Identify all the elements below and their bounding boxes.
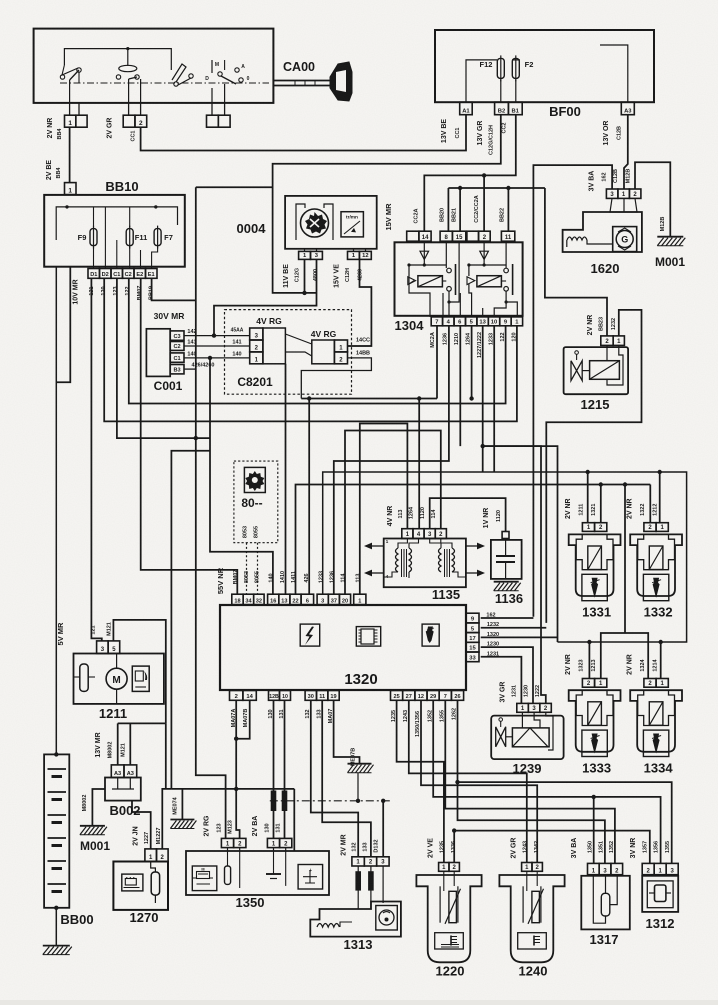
wire 1233 1304 to injector bus	[493, 326, 495, 472]
wire signal mid down	[624, 485, 626, 634]
bus MA07 ground	[171, 788, 294, 790]
junction lower bus 1333	[587, 640, 591, 644]
BF00 internal rail	[466, 60, 497, 102]
connector C001 body	[146, 329, 170, 377]
1239 connector	[517, 703, 529, 712]
1304 left relay bus	[409, 264, 446, 266]
1304 misc bottom wires	[442, 293, 444, 317]
1211 resistor	[80, 664, 88, 691]
octane gear box	[244, 467, 265, 492]
wire 14BB	[301, 358, 371, 399]
wire D132 to 1313	[382, 801, 384, 857]
injector 1334 body	[630, 690, 682, 752]
sensor 1240 thermometer icon	[518, 933, 547, 949]
junction CC2/CC2A	[482, 173, 486, 177]
1620 connector	[606, 189, 618, 198]
injector 1331 solenoid	[588, 546, 602, 570]
wire 1264 1304 down	[471, 326, 473, 399]
fuse F7	[154, 229, 161, 246]
1313 inline connector 2	[369, 872, 374, 890]
wire 162 to 1620	[533, 165, 612, 617]
inline connector 130	[271, 791, 276, 811]
wire CC2 B1 down	[424, 115, 516, 232]
junction battery bottom	[54, 906, 58, 910]
BB10 connector row	[88, 269, 100, 279]
junction 0004 C12G	[302, 291, 306, 295]
svg-text:M1227: M1227	[156, 828, 162, 845]
wire 1120 1135 to 1136	[430, 498, 506, 531]
wire pin33 1231	[481, 657, 522, 704]
fuse F9	[90, 229, 97, 246]
wire M1227 into 1270	[162, 789, 171, 849]
1135 connector	[402, 529, 413, 539]
1313 coil symbol	[317, 924, 339, 928]
idle actuator 1239 box	[491, 716, 563, 760]
BB10 internal rail	[56, 207, 177, 240]
1304 top connector 2	[467, 231, 479, 241]
switch S2	[127, 49, 129, 66]
BB00 battery cells	[48, 768, 67, 770]
1136 connector	[502, 532, 509, 539]
wire 1352 to 1317	[445, 700, 615, 863]
C8201 link lines	[285, 334, 311, 344]
wire 426/4260 from B3	[184, 368, 196, 370]
1304 left contact	[445, 241, 447, 268]
fuel pump 1211 box	[74, 654, 164, 704]
wire 1350/1356 bus	[433, 700, 660, 863]
BB10 rail junction left	[65, 205, 68, 208]
dotted wire 8053	[246, 543, 248, 595]
wire M12B to ground	[635, 162, 670, 236]
switch S3	[170, 62, 172, 70]
1135 left primary coil	[396, 548, 399, 572]
bus 450 left	[171, 451, 210, 789]
wire 121 to 1211	[91, 278, 101, 641]
1304 right relay bus	[469, 264, 506, 266]
1135 HT arrow left top	[372, 545, 384, 547]
wire pin15 1230	[481, 647, 533, 703]
junction 45AA	[212, 333, 216, 337]
wire 2V BE BB4 down to BB10	[69, 127, 71, 182]
junction 1336	[452, 828, 456, 832]
1320 injector icon box	[422, 624, 439, 646]
svg-text:2V JN: 2V JN	[133, 826, 140, 845]
junction lower bus 1334	[659, 640, 663, 644]
C8201 connector B cells	[334, 340, 347, 352]
wire 130 down	[273, 700, 275, 838]
sensor 1220 wire in	[443, 871, 445, 891]
injector supply bus	[323, 472, 687, 642]
ECU 1320 box	[220, 605, 466, 690]
C8201 connector B body	[312, 340, 335, 364]
wire 1262 to 1317	[458, 782, 605, 863]
0004 pin stubs	[304, 249, 306, 252]
sensor 1220 thermometer icon	[435, 933, 464, 949]
1320 bottom group4	[391, 691, 403, 701]
junction bus 1332	[658, 470, 662, 474]
CA00 internal dash-dot line	[60, 82, 269, 84]
wire BB22 from 1304 pin 11	[507, 188, 509, 231]
1304 right contact	[505, 241, 507, 268]
CA00 connector 2 (2V GR)	[123, 115, 135, 127]
0004 connector 1 3	[299, 251, 311, 259]
resistor unit 1270 box	[113, 862, 168, 910]
1270 resistor	[151, 872, 159, 895]
C001 cells	[170, 331, 184, 340]
inline connector 131	[282, 791, 287, 811]
injector 1334 nozzle icon box	[643, 730, 668, 756]
ground ME07B	[348, 763, 372, 765]
fuse box BB10	[44, 195, 185, 267]
wire lower drop 1334	[660, 642, 662, 679]
1312 inner box	[647, 881, 673, 908]
wire supply drop 1331	[587, 472, 589, 523]
BB10 rail junction right	[154, 205, 157, 208]
ground M001 top right	[657, 236, 683, 238]
1304 top connector 8 15	[440, 231, 452, 241]
1350 resistor icon box	[192, 866, 217, 891]
junction 140-1320	[208, 356, 212, 360]
junction 426	[307, 396, 311, 400]
BB10 pin 1	[65, 183, 77, 195]
wire pin17 1320	[481, 636, 558, 638]
injector 1331 body	[569, 534, 621, 596]
sensor 1240 wire in	[526, 871, 528, 891]
wire BB20 BB21 header	[448, 187, 545, 189]
1211 connector	[97, 641, 109, 654]
wire pin5 1232	[481, 627, 547, 629]
junction signal mid	[623, 482, 627, 486]
wire 426 to 1320 pin6	[308, 399, 310, 595]
wire 123 down to 1350	[196, 438, 226, 838]
injector 1332 solenoid housing	[638, 534, 675, 569]
injector 1332 solenoid	[649, 546, 663, 570]
injector 1334 solenoid housing	[638, 690, 675, 725]
1304 right relay diode	[483, 241, 485, 265]
1304 top connector 14	[407, 231, 419, 241]
resistor pack 1350 box	[186, 851, 329, 895]
wire MC2A from 1304 pin7	[436, 326, 438, 399]
fuse F2	[512, 58, 519, 78]
B002 connector	[111, 765, 124, 778]
fuse F11	[126, 229, 133, 246]
1350 vertical resistor	[225, 866, 231, 884]
starter 1620 body	[610, 198, 637, 212]
wire 10V MR left pair	[55, 267, 57, 755]
dashed box C8201	[225, 310, 352, 395]
wire 1264 to 1135 pin4	[418, 399, 420, 529]
1620 coil	[566, 240, 568, 247]
1350 inner wires	[239, 851, 241, 888]
1211 fuel icon	[132, 666, 149, 691]
BF00 connector A1	[460, 102, 473, 115]
ignition coil primary 1313 body	[310, 902, 401, 937]
sensor 1312 box	[642, 876, 678, 912]
0004 engine symbol	[301, 209, 329, 237]
relay unit 1304 box	[395, 242, 523, 315]
sensor 1220 thermistor	[449, 891, 457, 922]
wire 1236 horizontal link	[334, 460, 449, 462]
wire 1222 branch	[483, 446, 546, 703]
sensor 1220 connector	[439, 863, 449, 872]
junction signal 1331	[599, 482, 603, 486]
wire 13V GR C12G to 0004 loop	[273, 115, 501, 293]
dotted wire 8055	[257, 543, 259, 595]
sensor 1240 connector	[522, 863, 532, 872]
bus 438 wire 123	[117, 278, 210, 438]
bus 398 C8201 to 1135	[301, 398, 437, 400]
ground ME074	[170, 819, 194, 821]
injector 1333 body	[569, 690, 621, 752]
1320 right connector cells	[466, 613, 479, 623]
wire 1411 signal bus	[296, 485, 651, 595]
1270 connector	[145, 849, 157, 862]
octane gear icon	[245, 471, 264, 491]
1320 top connector row	[232, 594, 243, 604]
wire MA07A merge	[236, 700, 239, 838]
bus 421 wire 120	[104, 278, 517, 421]
BB10 wires fuses to cells	[93, 246, 95, 269]
1313 icon box	[376, 906, 398, 931]
0004 connector 1 12	[348, 251, 360, 259]
signal T lower	[601, 633, 648, 679]
1304 top connector 11	[501, 231, 514, 241]
wire MA07 to ME07B	[334, 700, 360, 763]
1211 motor	[106, 668, 127, 689]
wire BM07 to 1320 pin18	[141, 278, 238, 594]
battery BB00 box	[44, 754, 69, 907]
1320 bottom group3	[305, 691, 316, 701]
wire 1355 to 1312	[458, 700, 672, 863]
wire 0004 pin1 C12G down	[304, 259, 306, 293]
CA00 connector 1 (2V NR)	[65, 115, 76, 127]
wire bus end down	[293, 789, 295, 851]
wire ME07B to shield line	[357, 773, 359, 801]
throttle potentiometer 1317 box	[581, 876, 630, 930]
wire 1350 drop to 1317	[593, 797, 595, 864]
1215 valve symbol	[571, 361, 582, 381]
wire 14CC	[348, 345, 372, 347]
svg-text:1227: 1227	[144, 832, 150, 844]
wire BB20 drop	[447, 188, 449, 231]
C8201 connector A cells	[250, 328, 263, 340]
injector 1333 connector	[582, 679, 594, 688]
condenser 1136 box	[491, 540, 522, 579]
octane connector 80 dotted box	[234, 461, 278, 543]
1304 bottom connector	[431, 317, 442, 326]
wire 0004 pin3 to 45AA	[214, 259, 317, 335]
fuse box BF00	[435, 30, 654, 102]
junction battery top	[54, 752, 58, 756]
scan noise overlay	[0, 0, 1, 1]
wire 141	[184, 345, 250, 347]
wire 1210 stub	[459, 326, 461, 446]
fuse F12	[497, 58, 504, 78]
sensor 1240 thermistor	[532, 891, 540, 922]
1350 connector B	[267, 838, 279, 847]
sensor 1220 inner channel	[439, 886, 441, 922]
injector 1332 body	[630, 534, 682, 596]
wire signal drop 1331	[600, 485, 602, 523]
1350 battery symbol	[266, 873, 281, 875]
wire 1320wire down	[557, 448, 559, 642]
1135 HT arrow left bottom	[372, 572, 384, 574]
svg-text:1270: 1270	[130, 910, 159, 925]
ignition key head	[330, 62, 352, 101]
junction 1264 bus	[417, 396, 421, 400]
0004 rev counter box	[341, 212, 363, 237]
wire 132 to 1313	[311, 700, 358, 857]
1239 valve symbol	[496, 727, 506, 747]
wire 1227 into 1270	[132, 801, 151, 849]
junction bus 1331	[586, 470, 590, 474]
wire CA00 S4 to connector 3	[211, 103, 213, 115]
junction BB21	[458, 186, 462, 190]
1320 bottom group1	[230, 691, 243, 701]
ground below BB00	[43, 945, 70, 947]
wire 13V OR to 1620	[624, 115, 628, 189]
injector 1332 connector	[644, 523, 656, 532]
injector 1333 solenoid housing	[576, 690, 613, 725]
wire 1235 to 1220	[397, 700, 444, 862]
ignition coil 1135 box	[384, 539, 466, 588]
1135 right primary coil	[439, 548, 442, 572]
1317 potentiometer	[601, 893, 610, 916]
wire 1236 1304 to 1320 pin37	[334, 326, 449, 594]
wire BF00 A3 internal	[600, 45, 628, 102]
wire BB23 to 1215	[545, 188, 607, 336]
1312 connector	[642, 863, 654, 874]
junction BB22	[506, 186, 510, 190]
injector 1332 nozzle icon box	[643, 574, 668, 600]
BB10 wire F9 top	[93, 207, 95, 227]
wire 447 link	[483, 446, 558, 448]
switch S4 with M D A marks	[211, 60, 213, 73]
wire M8002 to ground	[92, 789, 105, 826]
1239 internal wires	[521, 712, 523, 728]
shield dash-dot line	[270, 800, 390, 802]
wire 1243 to 1240	[409, 700, 527, 862]
ground M001 under B002	[80, 825, 105, 827]
1320 bottom group2	[269, 691, 280, 701]
wire 114 1320 to 1135	[345, 431, 441, 595]
junction 123 bus	[194, 436, 198, 440]
0004 outer box	[285, 196, 377, 249]
wire 140	[184, 357, 250, 359]
junction MA07 bus	[234, 787, 238, 791]
wire pin9 162	[481, 617, 534, 619]
CA00 rail junction	[126, 47, 129, 50]
wire CC2/CC2A branch	[483, 175, 485, 231]
switch S1	[62, 65, 78, 75]
wire 1342 to 1240	[421, 700, 537, 862]
sensor 1240 inner channel	[522, 886, 524, 922]
1313 connector	[352, 857, 364, 866]
1135 HT arrow right top	[466, 545, 477, 547]
wire 1211 to B002 cells	[118, 722, 166, 724]
wire 142	[184, 335, 250, 337]
1304 right relay coil	[468, 265, 470, 276]
wire 1227/1222 to injector bus	[482, 326, 484, 472]
1320 chip icon	[356, 627, 380, 647]
1350 right icon box	[298, 865, 323, 890]
injector 1331 connector	[582, 523, 594, 532]
wire CC1 from CA00 to BF00	[141, 115, 466, 151]
ignition switch CA00 box	[34, 29, 274, 103]
injector 1334 solenoid	[649, 702, 663, 726]
wire M121 1211 loop	[113, 620, 165, 724]
injector 1333 nozzle icon box	[582, 730, 607, 756]
wire fuses to B cells	[500, 80, 502, 102]
1304 left relay diode	[423, 241, 425, 265]
wire 1410 C8201 to 1320 pin13	[285, 364, 287, 594]
junction 1227 1222	[481, 444, 485, 448]
wire 1232 loop	[546, 310, 641, 623]
1304 left relay coil	[408, 265, 410, 276]
BB10 wire F11 top	[129, 207, 131, 227]
1135 HT arrow right bottom	[466, 572, 477, 574]
wire CA00 S1 to connector 1	[69, 103, 71, 115]
wire down to MA07 bus	[165, 723, 167, 789]
BF00 connector A3	[621, 102, 634, 115]
wire 140 C001 to 1320 pin16	[210, 358, 273, 594]
1313 wire 3	[382, 866, 384, 903]
injector 1334 connector	[644, 679, 656, 688]
BF00 connector B2 B1	[495, 102, 509, 115]
wire 113 1320 to 1135	[360, 424, 408, 595]
injector 1331 solenoid housing	[576, 534, 613, 569]
wire 1336 to 1312	[454, 831, 650, 864]
wire lower drop 1333	[588, 642, 590, 679]
bus 403 wire 122	[129, 278, 506, 403]
wire CA00 S2 to connector 2	[128, 103, 130, 115]
1313 inline connector 1	[356, 872, 361, 890]
1239 motor box	[512, 728, 549, 747]
1136 ground hatch	[494, 581, 519, 583]
wire net down left of 0004	[196, 186, 273, 188]
1350 stubs	[227, 848, 229, 851]
wire ME074 stem	[181, 789, 183, 820]
1320 lightning icon box	[300, 624, 320, 646]
0004 engine symbol box	[296, 204, 305, 240]
wire 1262 from 1320 pin26	[466, 712, 661, 794]
wire battery to ground	[55, 908, 57, 946]
battery junction B002 box	[105, 778, 141, 801]
C8201 connector A body	[263, 328, 286, 364]
1136 capacitor symbol	[505, 539, 507, 557]
junction 1350 wire	[592, 795, 596, 799]
wire signal drop 1332	[649, 485, 651, 523]
1215 connector	[601, 336, 613, 346]
sensor 1240 body	[499, 875, 564, 962]
wire BB19 horizontal	[152, 278, 196, 300]
1215 internal wires	[606, 345, 608, 360]
wire BB21 drop	[459, 188, 461, 231]
1215 coil box	[590, 361, 620, 380]
1270 icon box	[122, 874, 143, 891]
sensor 1220 body	[416, 875, 481, 962]
wire supply drop 1332	[659, 472, 661, 523]
wire 131 down	[284, 700, 286, 838]
solenoid valve 1215 box	[564, 347, 629, 394]
wire 133 to 1313	[322, 700, 371, 857]
1317 connector	[588, 863, 600, 874]
1312 element	[655, 885, 666, 902]
CA00 internal top rail	[64, 49, 171, 65]
ignition key shaft	[273, 80, 330, 82]
junction 1262	[455, 780, 459, 784]
injector 1331 nozzle icon box	[582, 574, 607, 600]
